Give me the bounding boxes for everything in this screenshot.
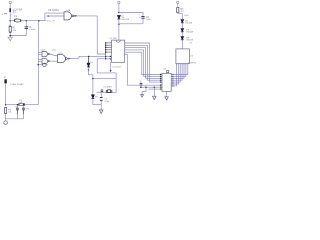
wire U2 bottom pin — [110, 62, 112, 71]
label RV1 — [26, 108, 31, 110]
LED D6 — [181, 20, 184, 23]
wire to test point — [38, 64, 43, 66]
node pin3 — [105, 47, 106, 48]
node pin7 — [110, 58, 111, 59]
wire r7 — [171, 64, 176, 86]
label F1 — [14, 15, 17, 20]
label Y1 — [103, 86, 112, 88]
label C1 — [29, 27, 36, 31]
wire branch x23.5 — [23, 105, 25, 108]
diode D5 — [92, 95, 95, 99]
wire 5 — [125, 52, 161, 74]
wire — [9, 12, 11, 20]
gate U1B NAND small 1 — [42, 51, 49, 57]
label J1 — [163, 68, 167, 70]
fuse F2 — [19, 103, 25, 105]
node J1 left pins — [160, 74, 161, 90]
node pin4 — [105, 49, 106, 50]
diode D7 — [181, 29, 184, 32]
node VCC junction — [118, 12, 120, 14]
label D7 — [186, 29, 194, 33]
wire bottom rail — [119, 23, 143, 25]
label D6 — [185, 20, 193, 24]
ground — [8, 37, 12, 41]
wire 3 — [125, 48, 161, 79]
wire r5 — [171, 64, 180, 83]
terminal J2 — [4, 80, 6, 83]
wire small gnd jog — [142, 87, 146, 94]
varistor RV1 — [22, 108, 25, 114]
wire jog — [178, 13, 183, 16]
wire r2 — [171, 64, 186, 77]
svg-text:1N4148: 1N4148 — [121, 19, 129, 21]
pin bus U2 left — [105, 43, 107, 59]
wire U1A input B — [46, 15, 64, 17]
svg-text:1N4148: 1N4148 — [186, 32, 194, 34]
wire pin1 — [106, 42, 112, 44]
label R1 — [13, 28, 17, 32]
wire — [9, 6, 11, 8]
wire J1 bottom ground — [166, 91, 168, 97]
wire r4 — [171, 64, 182, 81]
wire gate2 input b — [38, 61, 42, 63]
wire — [39, 20, 45, 22]
wire cluster line — [97, 92, 117, 94]
node branch x17 — [17, 104, 18, 105]
wire — [9, 32, 11, 37]
svg-text:Y1 4MHz: Y1 4MHz — [103, 86, 112, 88]
wire bottom tie rail — [6, 118, 24, 120]
node pin6 — [110, 56, 111, 57]
ground arrow — [99, 110, 103, 114]
wire — [118, 19, 120, 24]
wire — [100, 100, 102, 110]
wire — [181, 40, 183, 49]
wire — [181, 23, 183, 29]
label U1A — [48, 9, 71, 12]
wire top rail to C2 — [119, 13, 143, 16]
gate U1C NAND small 2 — [42, 58, 49, 64]
wire 2 — [125, 45, 161, 80]
node branch circle — [38, 64, 40, 66]
capacitor C4 marks — [101, 90, 104, 91]
node rail left junction — [5, 104, 7, 106]
fuse F1 — [14, 19, 20, 22]
gate U1D NAND big — [58, 55, 68, 63]
pin arrow U1D output — [68, 58, 71, 60]
wire r3 — [171, 64, 184, 79]
node jog junction — [145, 87, 146, 88]
wire gate1 out to gate3 — [49, 54, 57, 56]
crystal Y1 — [106, 90, 112, 93]
wire U2 to J1 pin6 — [127, 54, 160, 85]
wire pin5 — [106, 51, 112, 53]
node junction C1 top — [26, 20, 28, 22]
wire r6 — [171, 64, 178, 84]
wire — [5, 113, 7, 120]
capacitor C5 — [100, 98, 103, 101]
wire branch x17 — [16, 105, 18, 108]
relay K1 box — [176, 49, 190, 64]
pin stubs relay bottom — [176, 64, 187, 66]
wire J2 down — [5, 83, 7, 105]
wire up to gate input — [45, 13, 52, 21]
label R3 — [180, 9, 184, 13]
wire gnd branch — [153, 87, 155, 96]
capacitor C1 — [25, 27, 28, 29]
wire bottom rail left — [6, 104, 19, 106]
label K1 — [190, 56, 193, 58]
wire U1A output — [74, 15, 97, 17]
svg-text:1N4148: 1N4148 — [186, 40, 194, 42]
wire — [26, 20, 39, 22]
wire — [9, 21, 11, 26]
wire tie vertical 2 — [23, 114, 25, 119]
wire gate1 input b — [38, 54, 42, 56]
wire bus U2 right to J1: wire 1 — [125, 43, 161, 82]
wire branch right — [93, 78, 116, 80]
power symbol PWR2 top-right — [177, 1, 179, 7]
svg-text:CLKOUT: CLKOUT — [113, 67, 123, 69]
pin arrow U1A output — [75, 15, 78, 17]
wire rail to fuse — [10, 20, 14, 22]
svg-text:VCC_5V: VCC_5V — [47, 21, 56, 23]
node junction gnd — [9, 35, 11, 37]
wire pin6 row — [79, 56, 112, 58]
wire tie verticals — [16, 114, 18, 119]
diode D1 — [117, 15, 120, 19]
wire bottom rail right — [25, 104, 39, 106]
resistor R5 — [5, 108, 7, 114]
wire — [118, 6, 120, 13]
capacitor C6 vertical — [140, 84, 143, 85]
ground arrow J1 — [165, 97, 168, 100]
svg-text:22pF: 22pF — [104, 101, 110, 103]
IC U2 body — [112, 40, 125, 62]
wire gate2 out to gate3 — [49, 60, 57, 62]
node R1 bottom — [10, 32, 11, 33]
wire — [181, 16, 183, 20]
node input B junction — [47, 15, 49, 17]
capacitor C2 polarized — [139, 16, 144, 19]
wire — [142, 18, 144, 24]
svg-text:1N4148: 1N4148 — [185, 23, 193, 25]
wire C6 top — [140, 81, 142, 84]
wire relay to J1 right: wire r1 — [171, 64, 188, 75]
label U1D — [58, 53, 63, 55]
power flag J1 — [167, 71, 169, 73]
ground arrow small — [141, 95, 144, 98]
label D1 — [121, 17, 129, 21]
svg-text:10k: 10k — [8, 112, 11, 114]
svg-text:PORTB: PORTB — [188, 63, 196, 65]
wire gate1 inputs — [38, 51, 42, 53]
earth circle — [4, 121, 8, 125]
node A junction — [9, 20, 11, 22]
node junction long drop — [38, 20, 40, 22]
svg-text:LOAD 24VAC: LOAD 24VAC — [10, 83, 24, 86]
node pin1 — [105, 42, 106, 43]
label F2 — [19, 100, 22, 104]
svg-text:U1B: U1B — [41, 50, 46, 52]
wire — [21, 20, 27, 22]
node branch junction — [92, 78, 94, 80]
pin arrow Q1 down — [88, 69, 90, 71]
svg-text:LED: LED — [184, 15, 189, 17]
label R5 — [8, 109, 12, 113]
label BT1 value — [13, 8, 23, 13]
label C5 — [104, 99, 110, 103]
wire pin3 — [106, 47, 112, 49]
wire J1 pin7 net left — [141, 86, 161, 88]
wire to bottom rail — [93, 99, 101, 105]
wire C5 hang — [100, 93, 102, 98]
label D5 — [95, 97, 99, 99]
wire — [10, 35, 26, 37]
svg-text:U1A: U1A — [66, 9, 71, 12]
node C6 junction — [140, 86, 142, 88]
node bottom rail junction — [118, 24, 120, 26]
power symbol VCC mid — [118, 1, 120, 6]
IC J1 body — [162, 73, 171, 91]
wire Q1 down jog — [89, 67, 93, 79]
wire C1 drop — [25, 21, 27, 27]
wire pin2 — [106, 44, 112, 46]
connector J2 label — [3, 77, 6, 79]
label net — [184, 15, 189, 17]
label Q1 — [91, 62, 95, 64]
wire down to D5 — [92, 79, 94, 95]
gate U1A NAND — [64, 12, 74, 20]
wire U1D output — [67, 57, 79, 59]
label D8 — [186, 37, 194, 41]
wire U2 pin7 descender — [97, 59, 116, 93]
svg-text:10uF: 10uF — [146, 19, 152, 21]
wire gate2 inputs — [38, 58, 42, 60]
diode D8 — [181, 37, 184, 40]
node pin2 — [105, 45, 106, 46]
wire C6 bottom — [140, 85, 142, 87]
svg-text:0.33uF: 0.33uF — [29, 29, 36, 31]
wire long vertical left — [37, 21, 39, 105]
node R1 top — [10, 25, 11, 26]
label plus terminal — [2, 13, 7, 16]
wire net stub — [45, 20, 46, 22]
wire J1 pin8 — [148, 88, 160, 90]
wire — [181, 32, 183, 37]
wire pin4 — [106, 49, 112, 51]
wire U1A input A — [52, 12, 64, 14]
wire J1 left pin stubs — [161, 75, 162, 90]
label U2 — [110, 38, 118, 40]
pin arrow U2 bottom — [110, 70, 112, 72]
node J1 right pins — [172, 74, 173, 87]
ground arrow right — [153, 96, 157, 99]
svg-text:U1C: U1C — [52, 50, 57, 52]
resistor R3 — [177, 8, 179, 13]
label input row — [10, 83, 24, 86]
transistor Q1 chain component — [87, 56, 90, 67]
wire NAND output drop — [97, 16, 106, 54]
node Q1 top junction — [88, 56, 89, 57]
node gnd branch junction — [154, 86, 156, 88]
wire pin7 row from gate3 — [97, 58, 111, 60]
capacitor C7 — [16, 108, 19, 114]
wire — [25, 29, 27, 36]
svg-text:U1D: U1D — [58, 53, 63, 55]
label U1B — [41, 50, 57, 52]
wire pin stub U2 r5 — [125, 53, 128, 55]
node pin5 — [105, 51, 106, 52]
wire to U2 top — [118, 24, 120, 40]
label net2 — [190, 43, 193, 45]
svg-text:U2 555: U2 555 — [110, 38, 118, 40]
testpoint TP1 circle — [43, 63, 48, 66]
resistor R1 — [9, 26, 11, 32]
label C2 — [146, 17, 152, 21]
label C7 — [15, 106, 18, 108]
battery BT1 — [9, 8, 11, 12]
wire 4 — [125, 50, 161, 77]
svg-text:74LS132N: 74LS132N — [48, 10, 59, 12]
power symbol PWR1 top-left — [9, 2, 11, 7]
